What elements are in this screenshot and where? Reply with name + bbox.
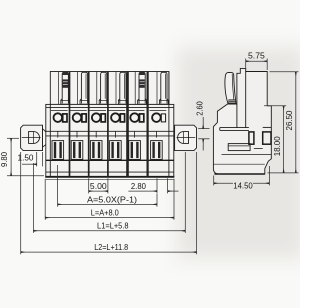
dim 5.00: extension lines	[88, 178, 90, 193]
dim L: dimension line	[45, 217, 174, 219]
dim 26.50: dimension line	[295, 72, 297, 173]
svg-text:2.80: 2.80	[131, 182, 147, 191]
dim 2.60: outside arrows	[202, 117, 204, 129]
side view: interior verticals under tower	[236, 104, 238, 128]
screw circle, pole 1	[54, 113, 63, 122]
screw circle, pole 6	[152, 113, 161, 122]
scanner gray shade right side	[177, 47, 305, 259]
lever, pole 5 (hatched)	[139, 72, 145, 103]
dim 2.80: extension lines	[156, 178, 158, 193]
clamp square, pole 1	[63, 114, 67, 122]
svg-text:A=5.0X(P-1): A=5.0X(P-1)	[87, 195, 137, 205]
side view: wire clamp lower box	[228, 144, 250, 151]
left mounting ear	[21, 125, 43, 150]
left ear slot (D hole)	[29, 132, 40, 144]
clamp square, pole 4	[120, 114, 124, 122]
center tick, pole 2	[76, 131, 78, 137]
side view: latch lever	[225, 72, 236, 103]
right ear slot (D hole)	[178, 132, 189, 144]
front view: housing top band (lever row)	[50, 72, 169, 105]
center tick, pole 3	[95, 131, 97, 137]
dim 18/26.5: common bottom extension	[268, 172, 299, 174]
dim L1: extension lines	[33, 163, 35, 233]
svg-text:14.50: 14.50	[233, 181, 253, 190]
dim 26.50: extension line	[270, 71, 299, 73]
svg-text:L2=L+11.8: L2=L+11.8	[94, 243, 128, 252]
dim 14.50: dimension line (split by text)	[214, 182, 233, 184]
svg-text:1.50: 1.50	[18, 154, 35, 163]
dim 9.80: extension lines	[7, 137, 19, 139]
dim 9.80: dimension line	[10, 138, 12, 175]
dim 18.00: extension line	[264, 105, 286, 107]
svg-text:5.00: 5.00	[90, 182, 107, 191]
wire-entry box, pole 5	[129, 141, 141, 160]
center tick, pole 5	[134, 131, 136, 137]
clamp square, pole 2	[82, 114, 86, 122]
dim L1: dimension line	[34, 230, 186, 232]
wire-entry box, pole 4	[110, 141, 122, 160]
dim 5.75: extension lines	[245, 59, 247, 71]
side view: body outline	[213, 68, 271, 174]
wire-entry box, pole 2	[71, 141, 83, 160]
side view: base lines	[222, 153, 272, 155]
lever, pole 1 (hatched)	[62, 72, 68, 103]
side view: right cavity box	[263, 132, 271, 144]
svg-text:18.00: 18.00	[273, 136, 282, 157]
dim 14.50: extension lines	[213, 176, 215, 186]
center tick, pole 6	[155, 131, 157, 137]
wire-entry box, pole 3	[90, 141, 102, 160]
lever, pole 6	[161, 72, 167, 103]
center tick, pole 4	[114, 131, 116, 137]
screw circle, pole 2	[73, 113, 82, 122]
dim L: extension lines	[44, 179, 46, 220]
dim L2: extension lines	[20, 152, 22, 254]
svg-text:L=A+8.0: L=A+8.0	[91, 209, 120, 218]
lever, pole 3	[101, 72, 107, 103]
screw circle, pole 3	[92, 113, 101, 122]
screw circle, pole 5	[130, 113, 139, 122]
dim 5.75: dimension line	[246, 60, 268, 62]
dim 18.00: dimension line	[283, 106, 285, 173]
wire-entry box, pole 1	[52, 141, 64, 160]
dim 1.50: extension lines	[36, 152, 38, 166]
lever, pole 2	[81, 72, 87, 103]
screw circle, pole 4	[111, 113, 120, 122]
left ear slot centerline	[22, 137, 41, 139]
svg-text:2.60: 2.60	[196, 101, 205, 116]
side view: contact slot double line	[220, 127, 249, 129]
dim 2.80: leader + outside arrows	[128, 190, 157, 192]
front view: housing body (mid + lower bands)	[46, 104, 174, 176]
lever, pole 4	[120, 72, 126, 103]
right ear slot centerline	[177, 137, 196, 139]
dim A: dimension line	[58, 203, 157, 205]
inner side walls	[49, 104, 51, 176]
dim A: extension lines (pole centers)	[57, 165, 59, 207]
svg-text:5.75: 5.75	[248, 52, 265, 61]
dim 1.50: leader with arrow	[22, 163, 37, 165]
wire-entry box, pole 6	[151, 141, 163, 160]
side view: clamp spring box	[249, 132, 254, 144]
clamp square, pole 6	[161, 114, 165, 122]
svg-text:L1=L+5.8: L1=L+5.8	[97, 222, 129, 231]
dim 2.60: extension lines	[198, 128, 209, 130]
clamp square, pole 3	[101, 114, 105, 122]
dim L2: dimension line	[21, 251, 197, 253]
svg-text:9.80: 9.80	[0, 151, 9, 167]
right mounting ear	[175, 125, 197, 150]
center tick, pole 1	[57, 131, 59, 137]
dim 5.00: dimension line	[89, 190, 108, 192]
svg-text:26.50: 26.50	[285, 110, 294, 131]
clamp square, pole 5	[140, 114, 144, 122]
unit separator walls	[69, 72, 71, 177]
